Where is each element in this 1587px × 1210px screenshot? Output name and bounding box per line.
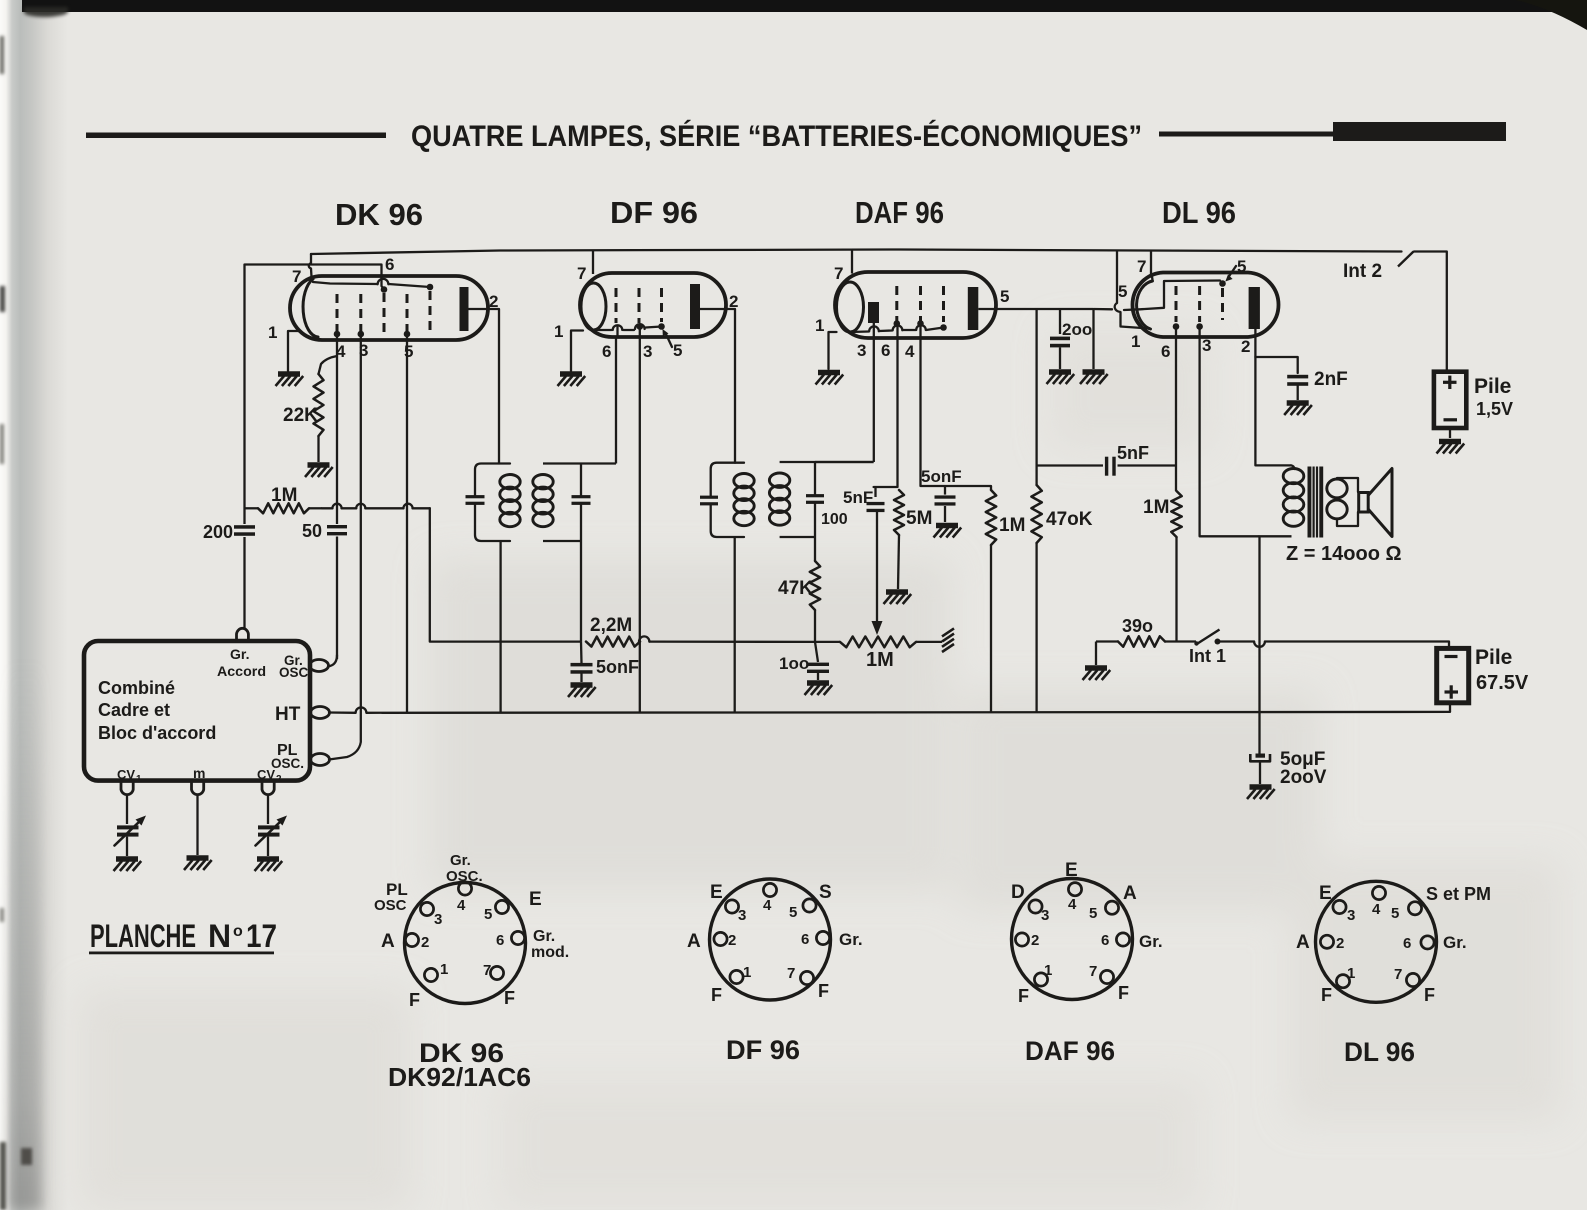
capacitor 200 (antenna) — [234, 525, 255, 529]
svg-text:A: A — [1296, 932, 1310, 953]
svg-text:5M: 5M — [906, 508, 932, 529]
svg-text:3: 3 — [1202, 336, 1211, 355]
svg-text:39o: 39o — [1122, 616, 1153, 636]
svg-text:Gr.: Gr. — [1443, 933, 1467, 952]
svg-text:2: 2 — [1031, 932, 1039, 949]
svg-text:HT: HT — [275, 704, 301, 725]
DK96 socket pin 1 — [424, 968, 437, 981]
node V3 grid3 bottom — [940, 324, 947, 331]
svg-text:F: F — [711, 985, 722, 1005]
resistor 2.2M — [586, 637, 640, 647]
wire Int2 to battery — [1414, 252, 1447, 372]
svg-text:2: 2 — [421, 934, 429, 951]
ground m — [184, 858, 212, 870]
capacitor 50nF (V3 screen) — [944, 486, 946, 495]
switch Int2 blade — [1398, 252, 1414, 267]
node V4 grid1 bottom — [1173, 323, 1180, 330]
wire CV1 gnd — [126, 837, 128, 856]
svg-text:OSC: OSC — [374, 897, 407, 914]
svg-text:6: 6 — [496, 932, 504, 949]
node V1 grid5 top — [427, 284, 434, 291]
node V3 grid1 bottom — [894, 320, 901, 327]
svg-text:7: 7 — [1137, 257, 1146, 276]
capacitor 200 (det) — [1059, 309, 1061, 334]
IFT2 secondary coil — [769, 473, 789, 487]
svg-text:200: 200 — [203, 522, 233, 542]
DL96 socket pin 1 — [1336, 975, 1349, 988]
terminal CV2 — [262, 781, 274, 795]
wire IFT2 primary to HT — [734, 537, 736, 712]
IFT1 secondary bottom — [543, 540, 581, 542]
DAF96 socket pin 2 — [1015, 933, 1028, 946]
DL96 socket pin 6 — [1421, 936, 1434, 949]
tube V1 grid4 dashed — [406, 294, 409, 332]
svg-text:A: A — [1123, 883, 1137, 904]
wire 390 gnd drop — [1095, 642, 1097, 666]
svg-text:1M: 1M — [271, 485, 297, 506]
tube V2 grid3 dashed — [660, 288, 663, 322]
IFT1 primary frame — [475, 464, 510, 542]
svg-text:6: 6 — [881, 341, 890, 360]
battery Pile67 box — [1437, 648, 1469, 702]
tube V4 anode bar — [1249, 287, 1260, 329]
capacitor 2nF — [1287, 375, 1308, 379]
paper mottling — [80, 330, 1560, 1210]
svg-text:3: 3 — [1041, 907, 1049, 924]
svg-text:DK 96: DK 96 — [335, 197, 423, 232]
svg-text:17: 17 — [246, 918, 277, 954]
svg-text:Int 2: Int 2 — [1343, 261, 1382, 282]
tube V2 grid2 dashed — [638, 288, 641, 323]
svg-text:S: S — [819, 882, 832, 903]
svg-text:Gr.: Gr. — [1139, 932, 1163, 951]
ground CV1 — [114, 859, 142, 871]
tube V1 grid1 dashed — [336, 294, 339, 332]
svg-text:F: F — [818, 981, 829, 1001]
svg-text:1: 1 — [743, 964, 751, 981]
resistor 22K — [314, 374, 324, 436]
tube V2 anode bar — [690, 284, 700, 329]
svg-text:1M: 1M — [1143, 497, 1169, 518]
wire 200 to terminal — [243, 624, 245, 628]
svg-text:7: 7 — [1089, 963, 1097, 980]
DAF96 socket circle — [1012, 879, 1133, 1000]
svg-text:Combiné: Combiné — [98, 678, 175, 698]
svg-text:2: 2 — [276, 774, 282, 785]
tube V3 grid3 dashed — [942, 286, 945, 322]
svg-text:1: 1 — [1044, 962, 1052, 979]
wire anode to DL96 grid3 — [1094, 281, 1221, 311]
tube V4 grid3 dashed — [1221, 288, 1224, 320]
DF96 socket pin 7 — [800, 971, 813, 984]
svg-text:N: N — [208, 918, 231, 954]
tube V1 DK96 envelope — [290, 276, 488, 340]
svg-text:F: F — [1321, 985, 1332, 1005]
svg-text:F: F — [1018, 986, 1029, 1006]
DAF96 socket pin 6 — [1116, 933, 1129, 946]
IFT1 secondary top — [543, 462, 616, 464]
resistor 47K — [810, 561, 820, 610]
svg-text:Int 1: Int 1 — [1189, 646, 1226, 666]
IFT1 primary coil — [500, 475, 520, 489]
wire V3 pin5 anode line — [978, 308, 1093, 310]
svg-text:PLANCHE: PLANCHE — [90, 918, 196, 954]
wire V2 pin3 down — [639, 327, 641, 713]
wire V1 grid6 lead — [245, 265, 385, 290]
svg-text:5onF: 5onF — [921, 467, 962, 486]
svg-text:7: 7 — [483, 962, 491, 979]
tube V3 grid1 dashed — [895, 286, 898, 321]
wire 5nF to pot wiper — [876, 511, 878, 622]
IFT2 secondary right side — [814, 462, 816, 495]
svg-text:3: 3 — [1347, 907, 1355, 924]
svg-text:7: 7 — [292, 267, 301, 286]
battery Pile15 plus — [1443, 381, 1457, 384]
capacitor 50nF (V2 grid) — [580, 642, 583, 663]
svg-text:4: 4 — [1372, 901, 1381, 918]
svg-text:DK92/1AC6: DK92/1AC6 — [388, 1062, 531, 1092]
tube V1 grid3 dashed — [383, 293, 386, 332]
battery Pile67 plus — [1445, 690, 1459, 693]
svg-text:DF 96: DF 96 — [726, 1035, 800, 1065]
tube V3 grid2 dashed — [919, 286, 922, 321]
svg-text:3: 3 — [857, 341, 866, 360]
svg-text:1,5V: 1,5V — [1476, 399, 1513, 419]
ground anode stub — [1080, 372, 1108, 384]
svg-text:50: 50 — [302, 521, 322, 541]
svg-text:7: 7 — [834, 264, 843, 283]
capacitor 50uF — [1256, 754, 1266, 758]
svg-text:5: 5 — [673, 341, 682, 360]
svg-text:Gr.: Gr. — [533, 928, 555, 945]
battery Pile67 minus — [1445, 655, 1458, 658]
tube V4 DL96 envelope — [1132, 273, 1278, 338]
arrow V4 pin5 — [1229, 266, 1237, 277]
wire V1 pin1 to ground — [288, 331, 300, 371]
svg-text:Z = 14ooo Ω: Z = 14ooo Ω — [1286, 543, 1402, 565]
DAF96 socket pin 1 — [1034, 973, 1047, 986]
capacitor 5nF coupling — [1037, 464, 1103, 466]
switch Int1 blade — [1196, 630, 1220, 645]
svg-text:F: F — [1118, 983, 1129, 1003]
svg-text:6: 6 — [801, 931, 809, 948]
wire V2 internal cathode line — [594, 327, 662, 331]
OT primary top lead — [1291, 465, 1295, 469]
box Combine outline — [84, 641, 310, 781]
tube V3 anode bar — [968, 287, 979, 330]
svg-text:2,2M: 2,2M — [590, 615, 632, 636]
ground 2nF — [1284, 403, 1312, 415]
resistor 5M — [894, 490, 904, 535]
tube V1 filament arc — [303, 279, 318, 337]
tube V2 grid1 dashed — [615, 288, 618, 323]
node V4 grid3 top — [1219, 280, 1226, 287]
wire anode gnd stub — [1092, 309, 1094, 369]
tube V4 filament arc — [1137, 281, 1153, 329]
svg-text:4: 4 — [1068, 896, 1077, 913]
wire CV2 gnd — [267, 837, 269, 856]
wire filament bus — [311, 250, 1402, 255]
svg-text:E: E — [710, 882, 723, 903]
IFT2 primary coil — [734, 474, 754, 488]
svg-text:6: 6 — [602, 342, 611, 361]
tube V1 anode bar — [460, 287, 469, 331]
svg-text:QUATRE LAMPES, SÉRIE “BATTERIE: QUATRE LAMPES, SÉRIE “BATTERIES-ÉCONOMIQ… — [411, 119, 1142, 153]
svg-text:1: 1 — [1347, 965, 1355, 982]
DF96 socket pin 3 — [725, 900, 738, 913]
DAF96 socket pin 3 — [1029, 900, 1042, 913]
wire V4 pin2 anode down — [1255, 329, 1291, 465]
svg-text:47oK: 47oK — [1046, 509, 1093, 530]
battery Pile15 box — [1434, 372, 1466, 428]
wire V2 pin6 down — [616, 325, 618, 337]
rule PLANCHE underline — [89, 952, 274, 955]
DK96 socket pin 2 — [405, 933, 418, 946]
IFT2 secondary top — [780, 461, 874, 463]
capacitor 50 (osc grid) — [327, 525, 347, 528]
wire V1 pin4 column — [336, 334, 338, 524]
potentiometer 1M — [815, 641, 840, 643]
svg-text:3: 3 — [643, 342, 652, 361]
OT secondary leads — [1337, 478, 1358, 526]
wire 22K elbow — [319, 356, 338, 374]
IFT2 primary cap — [700, 496, 718, 499]
capacitor 5nF (diode filter) — [874, 487, 876, 497]
svg-text:2oo: 2oo — [1062, 320, 1092, 339]
wire Int1 to battery — [1218, 642, 1450, 649]
svg-text:CV: CV — [117, 767, 135, 782]
svg-text:m: m — [193, 765, 205, 781]
terminal Gr.OSC — [310, 660, 329, 672]
svg-text:F: F — [409, 990, 420, 1010]
svg-text:DF 96: DF 96 — [610, 195, 698, 230]
svg-text:1: 1 — [554, 322, 563, 341]
svg-text:D: D — [1011, 882, 1025, 903]
resistor 470K — [1031, 485, 1041, 543]
DF96 socket circle — [710, 879, 831, 1000]
svg-text:F: F — [1424, 985, 1435, 1005]
ground pot end (wall) — [942, 628, 958, 655]
DAF96 socket pin 5 — [1105, 901, 1118, 914]
ground 22K — [305, 465, 333, 477]
svg-text:6: 6 — [1101, 932, 1109, 949]
svg-text:Pile: Pile — [1474, 375, 1511, 398]
svg-text:22K: 22K — [283, 405, 318, 426]
svg-text:100: 100 — [821, 511, 848, 528]
resistor 1M grid V4 — [1171, 491, 1181, 537]
corner curl top right — [1516, 0, 1587, 30]
svg-text:Accord: Accord — [217, 663, 266, 679]
svg-text:7: 7 — [577, 264, 586, 283]
tube V4 grid1 dashed — [1175, 286, 1178, 322]
DF96 socket pin 5 — [803, 899, 816, 912]
wire grid line down to 2.2M — [430, 508, 581, 641]
left edge smudges — [0, 36, 32, 1210]
header thick bar — [1333, 122, 1506, 141]
node V2 grid3 bottom — [658, 323, 665, 330]
svg-text:mod.: mod. — [531, 944, 569, 961]
wire V3 pin3 diode — [873, 323, 875, 462]
arrow V2 pin5 — [666, 333, 673, 347]
terminal CV1 — [121, 781, 133, 795]
svg-text:7: 7 — [787, 965, 795, 982]
resistor 1M left — [986, 490, 996, 545]
wire m drop — [196, 796, 198, 856]
DAF96 socket pin 4 — [1068, 883, 1081, 896]
wire V4 pin3 to OT — [1200, 327, 1259, 537]
DF96 socket pin 4 — [763, 883, 776, 896]
varcap CV2 — [258, 825, 280, 829]
ground CV2 — [255, 859, 283, 871]
svg-text:Gr.: Gr. — [230, 646, 249, 662]
wire CV2 drop — [267, 796, 269, 825]
DAF96 socket pin 7 — [1100, 970, 1113, 983]
node Int1 contact — [1215, 639, 1221, 645]
DK96 socket pin 6 — [511, 931, 524, 944]
svg-text:S et PM: S et PM — [1426, 884, 1491, 904]
node V4 grid2 bottom — [1196, 323, 1203, 330]
svg-text:6: 6 — [385, 255, 394, 274]
svg-text:6: 6 — [1403, 935, 1411, 952]
svg-text:OSC.: OSC. — [271, 756, 304, 771]
wire V3 pin7 to bus — [851, 250, 853, 274]
wire antenna column — [243, 265, 245, 525]
terminal PL OSC — [311, 754, 330, 766]
node V2 grid2 bottom — [637, 323, 644, 330]
svg-text:4: 4 — [905, 342, 915, 361]
svg-text:5: 5 — [1118, 282, 1127, 301]
svg-text:2: 2 — [729, 292, 738, 311]
svg-text:A: A — [687, 931, 701, 952]
tube V2 DF96 envelope — [580, 273, 726, 337]
DL96 socket pin 7 — [1406, 973, 1419, 986]
ground 50nF V3 — [934, 526, 962, 538]
svg-text:2nF: 2nF — [1314, 369, 1348, 390]
svg-text:E: E — [529, 889, 542, 910]
wire V1 pin7 to grid5 — [313, 282, 430, 287]
svg-text:5: 5 — [404, 342, 413, 361]
svg-text:E: E — [1065, 860, 1078, 881]
tube V3 filament ellipse — [837, 282, 864, 332]
OT primary coil — [1283, 469, 1304, 484]
tube V4 grid2 dashed — [1198, 286, 1201, 322]
wire battery67 to HT bus — [1449, 703, 1451, 712]
wire 1M V4 down — [1175, 537, 1177, 642]
ground V3 pin1 — [816, 373, 844, 385]
IFT1 secondary cap — [572, 495, 591, 498]
ground 200 det — [1047, 372, 1075, 384]
svg-text:6: 6 — [1161, 342, 1170, 361]
svg-text:2: 2 — [728, 932, 736, 949]
svg-text:DAF 96: DAF 96 — [855, 195, 944, 230]
battery Pile15 minus — [1444, 418, 1458, 421]
svg-text:5onF: 5onF — [596, 657, 639, 677]
svg-text:5: 5 — [1089, 905, 1097, 922]
svg-text:Gr.: Gr. — [839, 930, 863, 949]
header rule right — [1159, 132, 1333, 137]
wire V1 pin4 hook to GrOSC — [328, 655, 337, 667]
svg-text:DL 96: DL 96 — [1162, 195, 1236, 230]
svg-text:E: E — [1319, 883, 1332, 904]
wire IFT1 primary to HT — [499, 541, 501, 712]
DK96 socket pin 4 — [458, 882, 471, 895]
terminal m — [192, 781, 204, 795]
node V3 grid2 bottom — [917, 320, 924, 327]
wire 2.2M to AF node — [649, 640, 815, 643]
speaker voice coil — [1359, 493, 1369, 513]
DK96 socket pin 7 — [490, 966, 503, 979]
node V1 pin5 — [404, 331, 411, 338]
DL96 socket pin 3 — [1333, 900, 1346, 913]
wire V2 pin1 to ground — [571, 331, 583, 372]
DL96 socket pin 5 — [1408, 902, 1421, 915]
DK96 socket pin 5 — [495, 900, 508, 913]
svg-text:Bloc d'accord: Bloc d'accord — [98, 723, 216, 743]
ground 50nF V2 — [568, 685, 596, 697]
wire V3 internal cathode line — [850, 328, 944, 333]
wire V3 pin4 down — [921, 324, 992, 487]
wire OT bottom feed — [1259, 535, 1292, 537]
svg-text:1: 1 — [136, 774, 142, 785]
DK96 socket pin 3 — [420, 902, 433, 915]
wire V1 pin7 to bus — [309, 254, 312, 277]
svg-text:A: A — [381, 931, 395, 952]
wire 50uF drop — [1258, 536, 1260, 753]
tube V1 grid2 dashed — [359, 294, 362, 332]
svg-text:Pile: Pile — [1475, 646, 1512, 669]
IFT2 secondary cap — [806, 494, 824, 497]
DL96 socket pin 4 — [1372, 886, 1385, 899]
capacitor 100 (pot node) — [815, 642, 818, 662]
svg-text:1: 1 — [440, 961, 448, 978]
svg-text:CV: CV — [257, 767, 275, 782]
wire 47K link — [814, 560, 816, 562]
DK96 socket circle — [405, 883, 526, 1004]
DF96 socket pin 1 — [730, 970, 743, 983]
svg-text:5: 5 — [1000, 287, 1009, 306]
svg-text:5: 5 — [484, 906, 492, 923]
wire V4 pin6 down — [1175, 327, 1177, 492]
DF96 socket pin 2 — [714, 932, 727, 945]
svg-text:1M: 1M — [866, 649, 894, 671]
wire V3 pin6 down — [874, 324, 898, 488]
svg-text:F: F — [504, 988, 515, 1008]
IFT1 secondary right side — [580, 464, 582, 496]
wire V2 pin7 to bus — [592, 250, 594, 275]
svg-text:5: 5 — [789, 904, 797, 921]
svg-text:Cadre et: Cadre et — [98, 700, 170, 720]
wire V3 anode drop — [1035, 309, 1037, 485]
ground 50uF — [1247, 787, 1275, 799]
ground V2 pin1 — [558, 374, 586, 386]
ground battery15 — [1437, 442, 1465, 454]
svg-text:5nF: 5nF — [1117, 443, 1149, 463]
ground V1 pin1 — [276, 374, 304, 386]
IFT1 primary cap — [466, 495, 485, 498]
DL96 socket pin 2 — [1320, 935, 1333, 948]
wire V3 pin1 to ground — [829, 332, 837, 369]
wire V1 pin2 anode — [468, 309, 499, 464]
tube V3 DAF96 envelope — [835, 272, 996, 338]
varcap CV1 — [117, 825, 139, 829]
wire 1M left to HT — [990, 545, 992, 712]
OT core — [1308, 467, 1312, 538]
IFT2 primary frame — [711, 463, 744, 537]
ground 390 — [1083, 668, 1111, 680]
wire 470K to HT — [1035, 543, 1037, 712]
DL96 socket circle — [1316, 881, 1437, 1002]
ground 5M — [884, 592, 912, 604]
